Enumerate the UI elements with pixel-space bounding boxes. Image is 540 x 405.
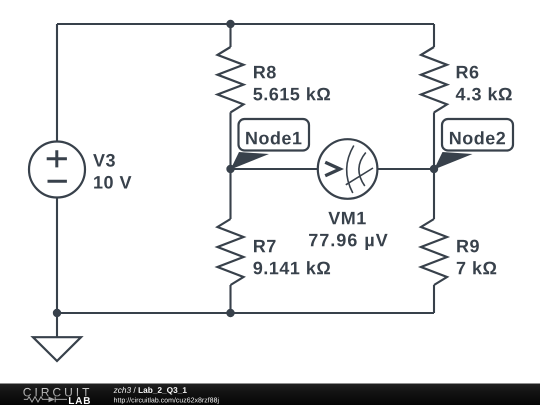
label R8 [254,66,276,79]
wire mid column R8 to Node1 to R7 [229,112,231,219]
wire mid column top lead [229,24,231,47]
ground [33,337,81,361]
label R8 value 5.615 kOhm [253,87,330,100]
junction dot bottom left [53,309,61,317]
resistor R6 [421,47,447,112]
CircuitLab logo LAB wordmark [69,397,90,404]
label R6 [457,66,479,79]
wire mid column below R7 [229,285,231,313]
label R7 value 9.141 kOhm [253,261,330,274]
wire bottom rail [57,312,434,314]
label R9 value 7 kOhm [457,261,496,274]
wire left vertical top [56,24,58,142]
footer title zch3 / Lab_2_Q3_1 [114,387,187,395]
wire right column below R9 [433,285,435,313]
label R7 [254,240,276,252]
label V3 [93,154,115,167]
footer bar [0,384,540,405]
node dot Node2 [430,165,438,173]
resistor R7 [218,219,244,285]
CircuitLab logo CIRCUIT wordmark [23,388,89,397]
junction dot top middle [226,20,234,28]
label VM1 [328,212,365,224]
wire ground lead [56,313,58,337]
wire right column top lead [433,24,435,47]
wire left vertical bottom [56,198,58,314]
label R9 [457,240,479,253]
node label Node1 callout [231,119,310,170]
voltage source V3 [29,142,85,198]
footer url [114,397,218,404]
voltmeter VM1 [318,139,378,199]
wire Node1 to voltmeter [231,168,319,170]
label VM1 value 77.96 uV [309,234,388,250]
wire right column R6 to Node2 to R9 [433,112,435,219]
CircuitLab logo schematic squiggle [24,397,67,403]
resistor R8 [218,47,244,112]
node label Node2 callout [434,119,513,170]
label R6 value 4.3 kOhm [456,87,512,100]
wire top rail [57,23,434,25]
junction dot bottom middle [226,309,234,317]
resistor R9 [421,219,447,285]
label V3 value 10 V [94,176,131,189]
wire voltmeter to Node2 [377,168,434,170]
node dot Node1 [226,165,234,173]
